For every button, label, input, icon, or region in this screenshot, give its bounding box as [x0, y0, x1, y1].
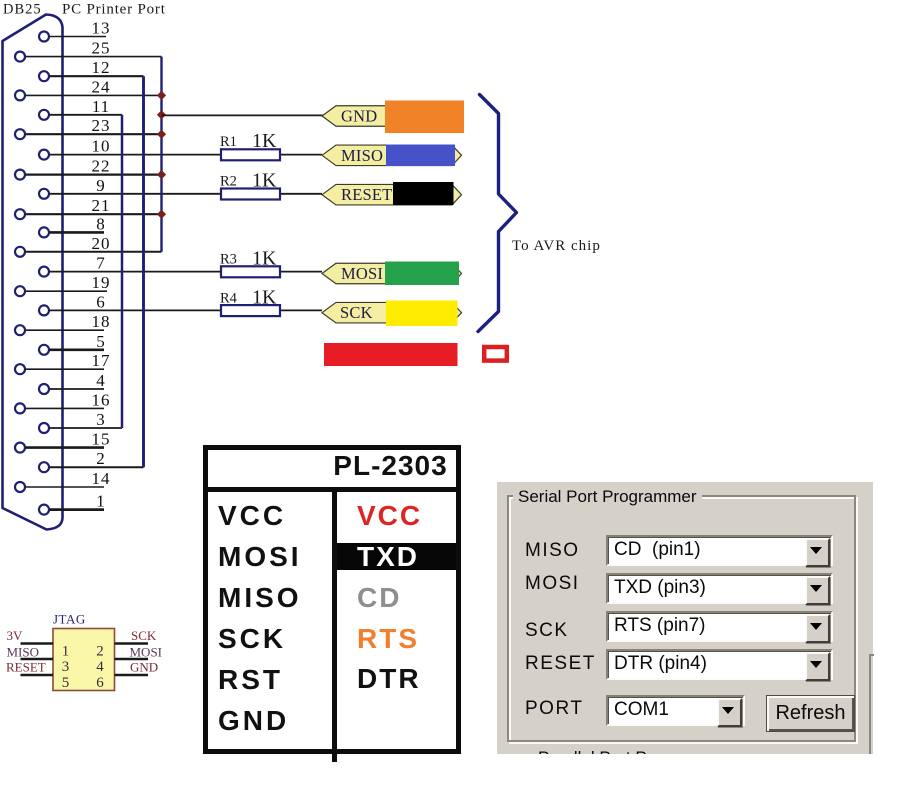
- svg-text:MOSI: MOSI: [341, 264, 383, 283]
- svg-text:16: 16: [92, 390, 111, 409]
- svg-text:15: 15: [92, 430, 111, 449]
- yellow wire swatch on SCK: [386, 301, 458, 327]
- svg-text:R4: R4: [220, 291, 238, 307]
- svg-text:14: 14: [92, 469, 111, 488]
- svg-text:25: 25: [92, 39, 111, 58]
- svg-text:MOSI: MOSI: [130, 645, 163, 660]
- svg-text:RESET: RESET: [6, 660, 46, 675]
- svg-text:To AVR chip: To AVR chip: [512, 238, 601, 254]
- net tag SCK: [322, 302, 462, 323]
- svg-text:SCK: SCK: [131, 628, 157, 643]
- svg-text:4: 4: [96, 371, 106, 390]
- pin 9 of DB25: pad, wire, number: [39, 176, 322, 199]
- svg-text:6: 6: [96, 675, 104, 691]
- PL-2303 header divider line: [208, 487, 456, 492]
- svg-text:R1: R1: [220, 134, 237, 150]
- svg-text:6: 6: [96, 292, 106, 311]
- PL-2303 pin mapping table: [203, 445, 461, 754]
- PL-2303 right column VCC: [357, 500, 422, 532]
- JTAG pin 2 stub (right): [115, 642, 149, 644]
- resistor R4 1K: [220, 287, 280, 317]
- pin 4 of DB25: pad, wire, number: [39, 371, 106, 394]
- svg-text:JTAG: JTAG: [53, 612, 86, 627]
- clipped second group box label Parallel Port Programmer: [538, 748, 730, 754]
- group box frame Serial Port Programmer: [507, 495, 856, 742]
- pin 25 of DB25: pad, wire, number: [15, 39, 162, 62]
- svg-text:20: 20: [92, 234, 111, 253]
- dialog row label MISO: [525, 540, 580, 562]
- PL-2303 left column RST: [218, 664, 283, 696]
- svg-text:MISO: MISO: [7, 645, 40, 660]
- svg-text:2: 2: [96, 644, 104, 660]
- svg-text:8: 8: [96, 214, 106, 233]
- pin 11 of DB25: pad, wire, number: [39, 97, 122, 120]
- pin 24 of DB25: pad, wire, number: [15, 77, 162, 100]
- black wire swatch on RESET: [393, 182, 454, 205]
- svg-text:17: 17: [92, 351, 111, 370]
- svg-text:7: 7: [96, 254, 106, 273]
- svg-text:1K: 1K: [252, 130, 277, 152]
- svg-text:4: 4: [96, 659, 104, 675]
- svg-text:5: 5: [62, 675, 70, 691]
- svg-text:PC Printer Port: PC Printer Port: [62, 2, 166, 18]
- JTAG pin 3 stub (left): [21, 658, 54, 660]
- pin 2 of DB25: pad, wire, number: [39, 449, 144, 472]
- svg-text:2: 2: [96, 449, 106, 468]
- PL-2303 column divider: [332, 491, 337, 762]
- svg-text:MISO: MISO: [341, 146, 383, 165]
- resistor R1 1K: [220, 130, 280, 160]
- svg-text:SCK: SCK: [340, 303, 373, 322]
- svg-text:24: 24: [92, 77, 111, 96]
- dialog combobox CD (pin1): [606, 535, 833, 566]
- JTAG pin 1 stub (left): [21, 642, 54, 644]
- JTAG connector body: [53, 629, 115, 691]
- dialog row label RESET: [525, 653, 596, 675]
- wire: GND net horizontal from bus to GND tag: [162, 114, 326, 116]
- svg-text:3: 3: [96, 410, 106, 429]
- brace: to AVR chip: [478, 95, 517, 332]
- svg-text:RESET: RESET: [341, 185, 392, 204]
- JTAG pin 6 stub (right): [115, 674, 149, 676]
- JTAG pin 4 stub (right): [115, 658, 149, 660]
- orange wire swatch on GND: [385, 101, 464, 134]
- PL-2303 left column GND: [218, 705, 289, 737]
- svg-text:GND: GND: [130, 660, 158, 675]
- PL-2303 left column MISO: [218, 582, 302, 614]
- PL-2303 left column MOSI: [218, 541, 302, 573]
- dialog combobox COM1: [606, 695, 745, 726]
- PL-2303 right column DTR: [357, 663, 421, 695]
- pin 7 of DB25: pad, wire, number: [39, 254, 322, 277]
- svg-text:13: 13: [92, 19, 111, 38]
- wire: vertical pin11 to pin3: [121, 115, 124, 428]
- svg-text:10: 10: [92, 137, 111, 156]
- net tag MOSI: [322, 263, 462, 284]
- pin 18 of DB25: pad, wire, number: [15, 312, 111, 335]
- pin 3 of DB25: pad, wire, number: [39, 410, 122, 433]
- pin 12 of DB25: pad, wire, number: [39, 58, 144, 81]
- junction dot on ground bus at y=134.2: [157, 130, 166, 139]
- green wire swatch on MOSI: [385, 262, 459, 286]
- red outline box (empty swatch): [484, 347, 507, 361]
- group box label Serial Port Programmer: [513, 487, 702, 507]
- svg-text:18: 18: [92, 312, 111, 331]
- svg-text:1: 1: [96, 492, 106, 511]
- svg-text:1K: 1K: [252, 170, 277, 192]
- svg-text:1K: 1K: [252, 287, 277, 309]
- svg-text:GND: GND: [341, 107, 377, 126]
- pin 22 of DB25: pad, wire, number: [15, 157, 162, 180]
- svg-text:5: 5: [96, 332, 106, 351]
- PL-2303 right column CD: [357, 582, 401, 614]
- net tag GND: [322, 106, 462, 127]
- dialog row label MOSI: [525, 573, 580, 595]
- PL-2303 right column TXD: [357, 541, 419, 573]
- svg-text:9: 9: [96, 176, 106, 195]
- svg-text:1K: 1K: [252, 248, 277, 270]
- PL-2303 left column SCK: [218, 623, 286, 655]
- svg-text:21: 21: [92, 196, 111, 215]
- junction dot on ground bus at y=114.8: [157, 110, 166, 119]
- svg-text:22: 22: [92, 157, 111, 176]
- pin 19 of DB25: pad, wire, number: [15, 273, 111, 296]
- net tag MISO: [322, 145, 462, 166]
- svg-text:DB25: DB25: [3, 2, 42, 18]
- svg-text:1: 1: [62, 644, 70, 660]
- pin 23 of DB25: pad, wire, number: [15, 116, 162, 139]
- pin 16 of DB25: pad, wire, number: [15, 390, 111, 413]
- pin 21 of DB25: pad, wire, number: [15, 196, 162, 219]
- pin 20 of DB25: pad, wire, number: [15, 234, 162, 257]
- junction dot on ground bus at y=214.2: [157, 210, 166, 219]
- red wire swatch bar: [324, 343, 458, 366]
- dialog row label PORT: [525, 698, 583, 720]
- pin 10 of DB25: pad, wire, number: [39, 137, 322, 160]
- pin 13 of DB25: pad, wire, number: [39, 19, 111, 42]
- junction dot on ground bus at y=174.6: [157, 170, 166, 179]
- pin 15 of DB25: pad, wire, number: [15, 430, 111, 453]
- svg-text:3: 3: [62, 659, 70, 675]
- wire: vertical pin12 to pin2: [142, 76, 145, 467]
- svg-text:23: 23: [92, 116, 111, 135]
- JTAG pin 5 stub (left): [21, 674, 54, 676]
- dialog combobox TXD (pin3): [606, 573, 833, 604]
- svg-text:R2: R2: [220, 174, 237, 190]
- svg-text:R3: R3: [220, 252, 237, 268]
- pin 8 of DB25: pad, wire, number: [39, 214, 106, 237]
- PL-2303 TXD black highlight bar: [337, 543, 457, 571]
- PL-2303 left column VCC: [218, 500, 286, 532]
- junction dot on ground bus at y=95.4: [157, 91, 166, 100]
- DB25 connector J1 body: [3, 15, 63, 530]
- pin 6 of DB25: pad, wire, number: [39, 292, 322, 315]
- dialog row label SCK: [525, 620, 569, 642]
- svg-text:11: 11: [92, 97, 110, 116]
- right group box partial edge: [869, 654, 871, 754]
- PL-2303 right column RTS: [357, 623, 419, 655]
- dialog combobox DTR (pin4): [606, 649, 833, 680]
- svg-text:19: 19: [92, 273, 111, 292]
- blue wire swatch on MISO: [386, 145, 455, 167]
- svg-text:12: 12: [92, 58, 111, 77]
- resistor R2 1K: [220, 170, 280, 200]
- pin 17 of DB25: pad, wire, number: [15, 351, 111, 374]
- Refresh button: [766, 695, 855, 732]
- resistor R3 1K: [220, 248, 280, 278]
- Serial Port Programmer dialog panel: [497, 482, 873, 754]
- PL-2303 title: [333, 450, 448, 482]
- net tag RESET: [322, 184, 462, 205]
- wire: ground bus vertical (pin25 to pin20): [160, 57, 162, 252]
- pin 14 of DB25: pad, wire, number: [15, 469, 111, 492]
- svg-text:3V: 3V: [7, 628, 24, 643]
- pin 1 of DB25: pad, wire, number: [39, 492, 106, 515]
- pin 5 of DB25: pad, wire, number: [39, 332, 106, 355]
- dialog combobox RTS (pin7): [606, 611, 833, 642]
